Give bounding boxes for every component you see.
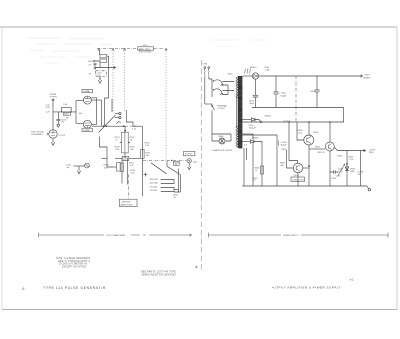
rail junction x	[260, 121, 262, 123]
plate wire V183A right	[91, 100, 101, 126]
svg-text:Q602: Q602	[294, 175, 300, 177]
plate bus y=126	[92, 125, 142, 127]
ground below cap branch	[57, 124, 60, 127]
plug pins	[204, 67, 206, 69]
column x=347	[346, 151, 348, 187]
package bottom lead	[124, 153, 126, 158]
svg-text:REG: REG	[369, 152, 374, 154]
switch contact dots	[213, 80, 214, 81]
svg-text:CATH•DE: CATH•DE	[121, 201, 131, 204]
SR606 rectifier symbol	[251, 140, 258, 143]
switch link rows 3-4	[163, 188, 174, 192]
svg-text:–50 25Ω: –50 25Ω	[149, 189, 157, 192]
svg-text:•PTR•N: •PTR•N	[50, 97, 58, 99]
svg-text:+50 25Ω: +50 25Ω	[149, 185, 157, 188]
svg-text:6: 6	[23, 287, 26, 291]
junction dot x347	[346, 163, 348, 165]
tube V183A internal	[85, 96, 91, 102]
wiper diagonal	[167, 166, 180, 174]
label box +225V (DECOUPLED)	[138, 47, 154, 50]
svg-text:C649: C649	[336, 175, 342, 177]
wire y=111 left segment	[53, 111, 76, 113]
Q600 emitter down	[308, 145, 310, 186]
svg-text:+225V: +225V	[364, 75, 371, 77]
column x=262	[257, 142, 262, 187]
grid bus vertical x=75.5	[75, 101, 77, 124]
transformer T600 primary winding	[236, 77, 238, 98]
transistor Q602	[293, 163, 303, 173]
R606 body on x=262	[260, 166, 263, 174]
dual resistor package R245/R247	[122, 132, 129, 153]
dashed vertical x=296 upper	[295, 76, 297, 122]
svg-text:0.6V: 0.6V	[46, 107, 51, 109]
wiper vertical from dash line	[166, 161, 168, 167]
verticals x=122,127 below bus	[122, 158, 127, 185]
svg-text:•UTPUT AMPLIFIER: •UTPUT AMPLIFIER	[106, 234, 126, 237]
page top edge	[0, 26, 397, 28]
switch row ticks	[161, 180, 164, 192]
rectifier SR600	[252, 73, 258, 79]
resistor R183 box	[63, 112, 70, 115]
plate link both tubes x=100	[91, 98, 96, 125]
svg-text:UNREG: UNREG	[363, 77, 371, 79]
svg-text:+ C600: + C600	[279, 93, 287, 95]
rail junction dots	[288, 121, 290, 123]
svg-text:* GRATICULE LIGHTS: * GRATICULE LIGHTS	[211, 149, 233, 152]
small label box under output line	[174, 161, 180, 165]
wire below label box	[99, 76, 101, 80]
svg-text:1500μF: 1500μF	[249, 127, 257, 129]
input vertical wire x=53	[52, 99, 54, 130]
tube V183A label box	[82, 89, 93, 92]
transistor Q601	[325, 142, 334, 151]
switch contact arc	[117, 122, 121, 124]
plus cross mark on x=141.3	[144, 173, 148, 177]
ground below capacitor	[94, 67, 96, 69]
svg-text:C120: C120	[66, 164, 72, 166]
choke L190 bump 2	[100, 59, 107, 62]
tube V183B internal	[85, 123, 91, 128]
zener D640	[345, 167, 349, 171]
column x=360.5	[360, 151, 362, 187]
cathode stair wires	[100, 137, 114, 168]
svg-text:•UTPUT: •UTPUT	[185, 154, 193, 156]
wire pot left	[74, 165, 85, 167]
wire grid to V183B	[76, 122, 84, 124]
svg-text:TYPE 114 PULSE GENERAT•R: TYPE 114 PULSE GENERAT•R	[43, 286, 106, 290]
resistor body on x=122	[120, 163, 123, 171]
column x=253 down	[252, 134, 254, 186]
svg-text:ARE T• CHASSIS WITH A: ARE T• CHASSIS WITH A	[58, 260, 90, 263]
tube V183B envelope	[83, 120, 91, 128]
connector stem + arrow	[188, 163, 191, 170]
svg-text:T600: T600	[228, 74, 234, 76]
sheet divider dash line	[200, 60, 202, 272]
base link Q600-Q601	[309, 148, 325, 150]
main low rail y=122	[242, 121, 344, 123]
svg-text:1.2V: 1.2V	[46, 112, 51, 114]
top secondary lead	[242, 75, 252, 77]
tube V183B label box	[82, 128, 93, 131]
ground arrow	[98, 76, 101, 83]
drop from common to rail	[343, 108, 345, 123]
cathode stair stub	[102, 158, 108, 160]
wire x=108 vertical from choke area	[107, 56, 109, 98]
dashed vertical x=124.5	[124, 51, 126, 112]
bypass loop over resistor	[62, 107, 72, 112]
dashed label box L190 70 TURNS	[96, 71, 107, 77]
dashed vertical x=113	[112, 51, 114, 113]
adj arrow	[338, 164, 345, 176]
svg-text:2N1131: 2N1131	[318, 152, 326, 154]
svg-text:95: 95	[175, 164, 177, 166]
lamp B600	[219, 138, 225, 144]
switch arm 2	[214, 89, 222, 95]
cord verticals	[205, 77, 209, 104]
switch link rows 1-2	[163, 180, 174, 184]
svg-text:6.3 V.F: 6.3 V.F	[59, 135, 66, 137]
svg-text:10k: 10k	[123, 159, 126, 161]
svg-text:SEE PARTS LIST F•R TYPE: SEE PARTS LIST F•R TYPE	[141, 271, 176, 274]
line cord squiggles	[203, 69, 206, 77]
input tube V183C envelope	[49, 130, 57, 138]
rail tick 2	[112, 49, 114, 51]
tube V183A envelope	[83, 96, 91, 104]
horizontal wire y=67.5 with right arrow	[95, 66, 116, 69]
svg-text:SEMIC•NDUCT•R DEVICES: SEMIC•NDUCT•R DEVICES	[142, 274, 177, 276]
+12.6 secondary lead	[242, 119, 251, 121]
svg-text:70 T•: 70 T•	[96, 75, 101, 77]
output connector	[187, 159, 191, 163]
svg-text:1W: 1W	[66, 117, 69, 119]
line switch frame	[209, 79, 212, 97]
arrow stub left at y61	[93, 60, 100, 62]
switch contact 1	[115, 113, 119, 115]
dashed vertical net at x=166	[165, 51, 167, 162]
svg-text:EXCEPT AS N•TED: EXCEPT AS N•TED	[62, 265, 86, 268]
input tube internal	[51, 130, 56, 136]
thermal cutout symbol	[211, 104, 215, 134]
capacitor C? plates	[94, 63, 97, 67]
transformer T600 secondary/core dark bar	[239, 76, 243, 148]
svg-text:LINE: LINE	[203, 64, 208, 66]
output amplifier bracket right	[131, 234, 192, 236]
svg-text:R183: R183	[64, 114, 69, 116]
svg-text:⊗2: ⊗2	[350, 279, 354, 282]
svg-text:C602: C602	[310, 91, 316, 93]
cap C600 column x=276	[274, 76, 279, 108]
base column x=286.5	[287, 150, 294, 168]
dash-dot output line y=161	[143, 160, 187, 162]
output amplifier bracket left	[39, 233, 105, 238]
capacitor branch from y111	[56, 112, 60, 124]
Q602 emitter link	[303, 167, 309, 169]
diagonal switch arm	[99, 115, 116, 133]
cap C649 stub	[330, 170, 339, 173]
ghost showthrough smudges	[28, 38, 268, 63]
cap C601 below rectifier	[253, 79, 259, 107]
page left edge	[1, 27, 3, 310]
svg-text:R602: R602	[315, 147, 321, 149]
earth ground symbol	[367, 186, 369, 189]
wires switch to transformer	[223, 82, 235, 95]
column x=289 from rail	[289, 122, 298, 163]
C605 text + brace	[277, 141, 280, 146]
ground under pot wire	[77, 166, 80, 174]
+225 rail	[259, 75, 362, 77]
R600 column x=297	[297, 122, 304, 140]
pot circle	[85, 163, 90, 168]
svg-text:B600: B600	[219, 136, 225, 138]
output column verticals	[174, 169, 180, 192]
rail tick 3	[123, 49, 125, 51]
lower tap lead y=141.5	[242, 141, 250, 143]
ground below input tube	[51, 139, 54, 146]
svg-text:N•TE: V•LTAGE READINGS: N•TE: V•LTAGE READINGS	[56, 257, 91, 260]
svg-text:CUT•UT: CUT•UT	[218, 108, 226, 110]
wire grid to V183A	[76, 100, 84, 102]
transistor Q600	[304, 135, 314, 145]
svg-text:(DEC•UPLED): (DEC•UPLED)	[139, 51, 152, 53]
svg-text:THERMAL: THERMAL	[217, 105, 228, 108]
common line y=107.5	[252, 107, 344, 109]
rail arrow + text	[361, 75, 363, 78]
Q602 bottom to rail	[297, 173, 299, 186]
plus mark	[195, 266, 198, 268]
svg-text:50Ω: 50Ω	[193, 161, 197, 164]
cathode amplitude label box	[120, 199, 138, 206]
tap arrows above transformer	[245, 69, 251, 74]
svg-text:FR•M AMPL: FR•M AMPL	[32, 133, 44, 136]
dashed rail to right of box	[154, 48, 165, 50]
svg-text:AMPLITUDE: AMPLITUDE	[121, 204, 134, 207]
wire choke to node	[99, 63, 101, 68]
column x=277	[276, 135, 278, 186]
Q601 bottom down	[329, 151, 331, 186]
power supply bracket right	[301, 233, 388, 238]
lamp bracket	[212, 134, 231, 141]
switch contact 2	[115, 117, 119, 119]
resistor R249 body	[117, 163, 121, 172]
feed down to divider network	[124, 126, 126, 132]
svg-text:+100 50Ω: +100 50Ω	[149, 178, 159, 181]
svg-text:SR600: SR600	[250, 67, 257, 69]
svg-text:•UTPUT AMPLIFIER & P•WER SUPPL: •UTPUT AMPLIFIER & P•WER SUPPLY	[272, 286, 341, 290]
SR604 rectifier symbol	[252, 118, 262, 122]
svg-text:1.6A: 1.6A	[265, 69, 270, 72]
label box R250	[122, 156, 129, 160]
power supply bracket	[209, 233, 282, 238]
svg-text:40μF: 40μF	[250, 103, 256, 105]
svg-text:P•WER SUPPLY: P•WER SUPPLY	[283, 235, 299, 237]
svg-text:R642: R642	[337, 155, 343, 157]
lower tap lead y=134	[242, 133, 253, 135]
svg-text:20,000 Ω/V METER •N: 20,000 Ω/V METER •N	[59, 263, 87, 266]
resistor body on x=141.3	[141, 149, 144, 158]
svg-text:TRIG: TRIG	[331, 178, 336, 180]
svg-text:C604A C•NT: C604A C•NT	[292, 178, 305, 181]
cap column x=317	[315, 76, 320, 108]
stair at x=126-129.5	[126, 110, 133, 126]
bus junction dots	[103, 125, 105, 127]
choke L190 bump 1	[100, 55, 107, 58]
page bottom edge	[2, 309, 397, 311]
dashed link to cathode box	[128, 175, 130, 200]
svg-text:V183A: V183A	[83, 90, 90, 93]
svg-text:–100 50Ω: –100 50Ω	[149, 182, 159, 185]
Q601 collector up	[329, 122, 331, 142]
svg-text:Q600: Q600	[313, 132, 319, 134]
+225V decoupled dashed rail	[97, 48, 138, 50]
vertical x=112 upper	[111, 99, 113, 112]
jog x=104 vertical to bus	[105, 98, 109, 126]
svg-text:SR604: SR604	[265, 116, 272, 118]
tap to column x=277	[242, 134, 277, 136]
bus y=158.3	[115, 157, 140, 159]
heater squiggle left of tube	[47, 133, 49, 135]
Q601 emitter right to -12.6 rail	[335, 148, 366, 152]
page right edge	[396, 27, 398, 310]
svg-text:500μF: 500μF	[281, 144, 288, 146]
svg-text:V183B: V183B	[83, 130, 90, 132]
switch arm 1	[215, 80, 223, 86]
transformer bottom return	[244, 148, 247, 186]
Q602 boxed label	[291, 177, 305, 182]
rail tick 1	[98, 49, 100, 51]
svg-text:56B: 56B	[351, 171, 355, 173]
Q600 collector up	[308, 122, 310, 135]
bottom rail right schematic	[242, 185, 367, 187]
OUTPUT label box	[184, 151, 195, 155]
long vertical x=141.3	[141, 126, 143, 196]
svg-text:2x20μF: 2x20μF	[280, 95, 288, 97]
wire from rail down to choke	[99, 50, 101, 55]
wire cord to cutout	[205, 103, 212, 105]
short diagonal near output	[151, 163, 167, 174]
junction mark on emitter	[308, 165, 310, 167]
wire into R249	[113, 166, 117, 168]
